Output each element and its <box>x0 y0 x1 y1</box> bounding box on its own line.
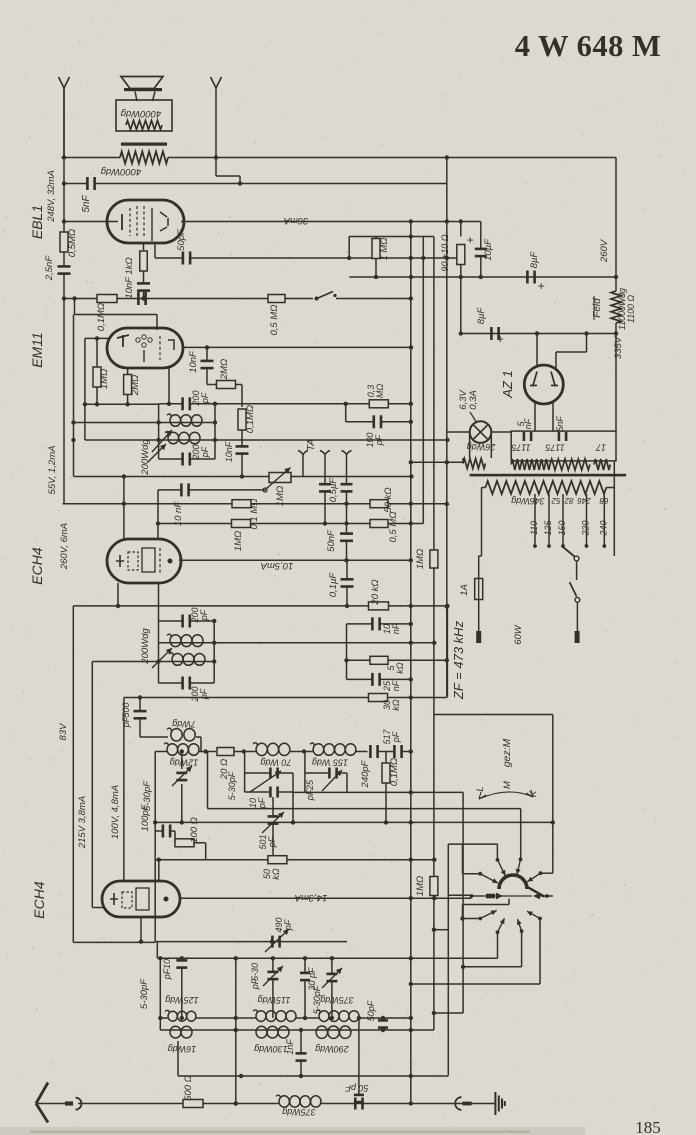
wire padder leg <box>244 752 246 774</box>
junction speaker line <box>214 155 218 159</box>
wire AZ1 filament 1 <box>534 402 536 431</box>
junction <box>62 181 66 185</box>
wire <box>234 751 256 753</box>
wire <box>586 334 588 353</box>
wire IFT3 right leg <box>213 621 215 683</box>
junction <box>409 219 413 223</box>
wire <box>207 384 217 386</box>
svg-text:kΩ: kΩ <box>391 699 401 711</box>
svg-text:+: + <box>466 233 473 247</box>
wire 260V bus <box>63 503 448 505</box>
wire <box>382 421 411 423</box>
wire ground bus right <box>321 1103 495 1105</box>
wire <box>143 292 145 299</box>
wire 83V rail <box>72 606 74 943</box>
wire <box>205 843 207 860</box>
capacitor 10µF electrolytic <box>475 248 487 258</box>
wire left rail lower <box>63 273 65 504</box>
junction <box>344 658 348 662</box>
wire <box>385 752 387 764</box>
mains switch <box>570 582 580 602</box>
resistor 1MΩ det <box>430 877 438 896</box>
wire band line <box>157 957 497 959</box>
svg-text:8µF: 8µF <box>476 307 487 325</box>
junction <box>479 275 483 279</box>
wire main HT rail <box>410 222 412 1104</box>
junction <box>302 749 306 753</box>
wire <box>181 958 183 959</box>
wire osc left leg <box>154 752 156 942</box>
wire <box>245 791 269 793</box>
junction <box>204 749 208 753</box>
capacitor TA 2 <box>341 483 353 493</box>
junction <box>234 1028 238 1032</box>
tuning arrow IFT2 <box>152 430 172 452</box>
resistor 0.5MΩ <box>268 295 285 303</box>
junction <box>330 1016 334 1020</box>
junction <box>409 695 413 699</box>
resistor 50kΩ osc <box>268 856 287 864</box>
capacitor 10nF AVC <box>236 445 249 455</box>
wire osc cathode line <box>91 662 93 908</box>
junction <box>432 641 436 645</box>
wire <box>547 895 553 897</box>
resistor 20kΩ <box>369 602 389 610</box>
wire <box>324 492 326 523</box>
antenna plug and socket <box>65 1098 82 1110</box>
wire tap 150 <box>562 494 564 546</box>
junction <box>122 502 126 506</box>
junction <box>460 916 464 920</box>
pot wiper terminal <box>263 488 267 492</box>
wire <box>613 461 615 488</box>
wire <box>73 941 155 943</box>
wire padder leg B <box>304 752 306 774</box>
antenna coil 375Wdg <box>316 1010 359 1022</box>
wire <box>155 830 162 832</box>
wire contact lead u3 <box>520 809 522 860</box>
wire EBL1 grid lead <box>64 221 110 223</box>
junction <box>614 331 618 335</box>
wire left rail upper <box>63 88 65 266</box>
wire diode line <box>215 439 447 441</box>
jack TA 1 <box>298 451 308 477</box>
wire <box>346 421 373 423</box>
wire <box>171 830 175 832</box>
wire to detector <box>214 642 434 644</box>
wire <box>194 842 206 844</box>
wire <box>181 969 183 1019</box>
wire <box>191 403 215 405</box>
svg-text:10nF: 10nF <box>224 441 234 462</box>
mixer tube ECH4 I <box>107 539 181 583</box>
secondary winding 346Wdg <box>485 481 606 494</box>
svg-text:2MΩ: 2MΩ <box>130 375 141 396</box>
wire to wiper row <box>448 894 471 896</box>
wire top bus right <box>168 157 616 159</box>
switch contact <box>315 292 337 301</box>
junction <box>384 820 388 824</box>
svg-text:1MΩ: 1MΩ <box>233 531 244 551</box>
svg-text:50pF: 50pF <box>366 1000 376 1021</box>
svg-text:0,1MΩ: 0,1MΩ <box>245 405 256 433</box>
wire loop right <box>292 773 294 792</box>
capacitor 200pF IFT2 top <box>181 397 191 410</box>
svg-text:8µF: 8µF <box>529 251 540 269</box>
wire IFT2 left leg <box>158 404 160 459</box>
wire <box>356 751 368 753</box>
wire <box>482 487 486 489</box>
junction <box>445 256 449 260</box>
wire <box>73 315 75 477</box>
svg-text:kΩ: kΩ <box>271 868 281 880</box>
wire IFT2 top <box>159 403 182 405</box>
junction <box>445 658 449 662</box>
svg-text:1MΩ: 1MΩ <box>99 369 110 389</box>
wire <box>191 620 214 622</box>
wire HT line 1 <box>349 276 616 278</box>
junction <box>72 296 76 300</box>
wire cathode <box>143 243 145 250</box>
wire <box>463 966 521 968</box>
capacitor 0.1µF <box>341 578 354 588</box>
svg-text:gez:M: gez:M <box>501 738 513 767</box>
resistor 1MΩ <box>372 239 380 259</box>
wire fuse lead <box>478 556 480 579</box>
trimmer arrow 490 <box>265 929 289 952</box>
wire <box>381 623 411 625</box>
junction <box>344 558 348 562</box>
svg-text:2,5nF: 2,5nF <box>44 255 55 281</box>
junction <box>62 155 66 159</box>
junction <box>357 1016 361 1020</box>
svg-text:pF: pF <box>199 688 209 700</box>
wire <box>196 1017 256 1019</box>
trimmer arrow 501 <box>262 812 284 833</box>
wire 100pF loop <box>345 404 347 422</box>
junction <box>153 820 157 824</box>
coil 375Wdg b <box>276 1095 321 1107</box>
wire osc feedback line <box>208 808 521 810</box>
junction <box>409 641 413 645</box>
primary winding 1175 <box>511 459 550 470</box>
wire switch box top <box>434 714 553 716</box>
tap contact 150 <box>561 544 565 548</box>
svg-text:14,3mA: 14,3mA <box>295 892 328 903</box>
wire stub 16Wdg <box>177 1041 179 1076</box>
wire AF line <box>74 476 412 478</box>
capacitor 50pF <box>182 252 192 265</box>
wire <box>155 859 206 861</box>
wire 5nF line left <box>64 183 87 185</box>
coil 290Wdg <box>316 1026 351 1038</box>
svg-text:K: K <box>528 790 539 797</box>
junction <box>158 1016 162 1020</box>
wire <box>191 458 215 460</box>
wire <box>92 907 104 909</box>
antenna coil 125Wdg <box>165 1010 196 1021</box>
svg-text:248V, 32mA: 248V, 32mA <box>46 170 57 223</box>
svg-text:215V 3,8mA: 215V 3,8mA <box>77 796 88 849</box>
capacitor 517pF <box>393 745 403 758</box>
wire <box>358 1018 360 1094</box>
junction <box>614 275 618 279</box>
svg-text:500: 500 <box>121 702 131 717</box>
resistor 1MΩ grid leak <box>232 520 251 528</box>
wire <box>300 1062 302 1077</box>
wire <box>84 338 86 440</box>
fuse 1A <box>475 579 483 600</box>
junction <box>409 1074 413 1078</box>
resistor 1MΩ af <box>430 550 438 568</box>
wire <box>346 560 348 578</box>
wire <box>382 1029 384 1031</box>
junction <box>409 1016 413 1020</box>
svg-text:17: 17 <box>595 443 606 453</box>
wire <box>447 461 463 463</box>
wire osc line 3 <box>206 859 435 861</box>
junction <box>344 402 348 406</box>
primary winding 1175 b <box>550 459 590 470</box>
speaker terminal left <box>59 77 70 88</box>
junction <box>381 1028 385 1032</box>
tuning arrow IFT2 b <box>148 444 166 462</box>
wire <box>199 751 216 753</box>
speaker cone <box>121 77 163 92</box>
resistor 5kΩ <box>370 656 388 664</box>
wire detector rail <box>433 237 435 879</box>
capacitor 5nF mains 1 <box>523 432 533 441</box>
capacitor 10pF <box>269 787 279 798</box>
junction <box>242 749 246 753</box>
junction <box>432 896 436 900</box>
capacitor 200pF IFT3 bottom <box>181 677 191 690</box>
wire lamp left <box>447 431 470 433</box>
svg-text:1100 Ω: 1100 Ω <box>626 295 636 323</box>
wave switch arm <box>527 887 545 897</box>
junction <box>62 296 66 300</box>
mains plug pin right <box>575 631 580 643</box>
junction <box>234 1101 238 1105</box>
junction <box>291 820 295 824</box>
junction <box>180 1016 184 1020</box>
wave switch arc <box>499 875 527 889</box>
svg-text:MΩ: MΩ <box>375 384 385 398</box>
svg-text:4000Wdg: 4000Wdg <box>120 108 161 119</box>
svg-text:90 +10 Ω: 90 +10 Ω <box>440 234 450 271</box>
svg-text:50nF: 50nF <box>326 529 337 552</box>
wire <box>191 682 214 684</box>
junction <box>138 695 142 699</box>
capacitor 50pF d <box>354 1098 364 1110</box>
wire <box>292 792 294 822</box>
capacitor 2.5nF <box>58 265 71 275</box>
capacitor 8µF electrolytic <box>526 271 536 284</box>
junction <box>71 420 75 424</box>
wire rung1 <box>347 623 372 625</box>
svg-text:pF: pF <box>199 609 209 621</box>
svg-text:nF: nF <box>523 418 533 429</box>
wire tube2 anode line <box>180 897 472 899</box>
resistor 0.1MΩ grid <box>232 500 251 508</box>
wire heater-ground rail <box>446 156 448 697</box>
wire <box>127 368 129 375</box>
wire <box>463 904 510 906</box>
hum-bucking winding 4000Wdg <box>120 152 168 164</box>
wire <box>556 351 587 353</box>
junction <box>180 956 184 960</box>
capacitor 10nF <box>137 282 150 292</box>
capacitor 5nF <box>86 177 96 190</box>
pilot lamp <box>470 421 492 443</box>
resistor 0.1MΩ AVC <box>238 409 246 430</box>
wire EBL1 grid2 <box>154 243 156 258</box>
wire secondary box left <box>481 488 483 557</box>
wire mains lead 2 <box>576 603 578 632</box>
svg-text:AZ 1: AZ 1 <box>500 370 515 398</box>
junction <box>271 858 275 862</box>
wire <box>156 942 158 959</box>
junction <box>239 1074 243 1078</box>
wire <box>74 299 76 315</box>
wire <box>207 752 209 809</box>
svg-text:0,5µF: 0,5µF <box>328 477 339 503</box>
resistor 2MΩ grid <box>217 381 236 389</box>
svg-text:130Wdg: 130Wdg <box>254 1044 288 1054</box>
switch contact d3 <box>517 919 524 933</box>
wire <box>159 958 161 1030</box>
capacitor 200pF IFT2 bottom <box>181 453 191 466</box>
resistor 1kΩ <box>140 251 148 271</box>
wire ground bus <box>203 1103 279 1105</box>
wire <box>346 542 348 561</box>
tap contact 125 <box>547 544 551 548</box>
svg-text:240pF: 240pF <box>360 759 371 788</box>
junction <box>234 1101 238 1105</box>
svg-text:100V, 4,8mA: 100V, 4,8mA <box>110 785 121 839</box>
svg-text:100pF: 100pF <box>140 803 151 831</box>
junction <box>409 956 413 960</box>
wire <box>346 403 370 405</box>
wire <box>206 369 208 385</box>
junction <box>432 928 436 932</box>
wire ECH4 anode line <box>179 559 411 561</box>
wire <box>462 905 464 919</box>
junction <box>409 604 413 608</box>
wire IFT2 coil1 row <box>74 422 216 424</box>
junction <box>409 296 413 300</box>
wire <box>381 678 411 680</box>
trimmer arrow e <box>322 968 342 988</box>
wire IFT3 bottom <box>159 682 182 684</box>
junction <box>156 659 160 663</box>
wire IFT3 left leg <box>158 621 160 683</box>
junction <box>409 256 413 260</box>
capacitor 200pF IFT3 top <box>181 615 191 628</box>
capacitor 10nF bus <box>137 292 147 305</box>
svg-text:1MΩ: 1MΩ <box>415 549 426 569</box>
wire top bus left <box>62 157 121 159</box>
svg-text:50 kΩ: 50 kΩ <box>383 487 394 512</box>
mixer tube ECH4 II <box>102 881 180 917</box>
coil 70Wdg <box>253 743 290 756</box>
wire <box>462 792 464 1013</box>
wire IFT2 to detector <box>215 403 346 405</box>
wire <box>200 737 202 752</box>
svg-text:pF: pF <box>267 836 277 848</box>
junction <box>409 345 413 349</box>
wire 83V line <box>73 605 447 607</box>
trimmer arrow 25pF <box>322 770 342 791</box>
svg-text:70 Wdg: 70 Wdg <box>260 758 291 768</box>
field coil 11000Wdg <box>611 291 621 323</box>
svg-text:TA: TA <box>306 439 317 451</box>
svg-text:0,1MΩ: 0,1MΩ <box>389 758 400 786</box>
wire <box>388 659 447 661</box>
trimmer 5-30pF e <box>326 973 337 983</box>
wire 50pF line <box>155 257 182 259</box>
wire <box>279 791 293 793</box>
wire <box>272 797 274 816</box>
wire coil row 2 <box>160 1029 434 1031</box>
resistor 30kΩ <box>369 694 388 702</box>
svg-text:260V, 6mA: 260V, 6mA <box>59 523 70 570</box>
wire <box>462 458 464 462</box>
junction <box>180 820 184 824</box>
junction <box>62 219 66 223</box>
svg-text:ECH4: ECH4 <box>31 881 47 919</box>
capacitor 50pF b <box>378 1019 388 1029</box>
svg-text:82: 82 <box>564 496 573 505</box>
wire EM11 pin to IFT2 <box>168 368 170 404</box>
wire AZ1 anode 2 <box>555 352 557 368</box>
wire <box>305 772 328 774</box>
wire <box>241 430 243 446</box>
wire grid return <box>158 523 423 525</box>
wire EM11 grid feed <box>75 314 158 316</box>
wire contact lead d2 <box>497 932 499 958</box>
wire <box>272 980 274 1018</box>
tuning arrow IFT3 <box>152 648 172 668</box>
svg-text:50 pF: 50 pF <box>345 1083 369 1093</box>
svg-text:4 W 648 M: 4 W 648 M <box>515 29 662 63</box>
wire IFT3 top <box>159 620 182 622</box>
wire <box>174 831 176 843</box>
wire <box>434 1012 463 1014</box>
speaker voice-coil leads <box>135 92 155 102</box>
wire <box>206 347 208 360</box>
wire <box>411 983 540 985</box>
switch contact u3 <box>516 858 523 875</box>
junction <box>157 858 161 862</box>
resistor 0.3MΩ <box>369 400 388 408</box>
junction <box>180 749 184 753</box>
wire tube2 bottom pin <box>140 917 142 942</box>
wire <box>385 783 387 822</box>
junction <box>409 460 413 464</box>
transformer core bar <box>121 143 167 146</box>
svg-text:155 Wdg: 155 Wdg <box>312 758 348 768</box>
wire <box>331 982 333 1018</box>
svg-text:2MΩ: 2MΩ <box>219 359 230 380</box>
wire <box>359 1017 411 1019</box>
core separator bar <box>470 474 627 477</box>
tap contact 240 <box>602 544 606 548</box>
tap contact 220 <box>585 544 589 548</box>
wire <box>181 752 183 770</box>
svg-text:500 Ω: 500 Ω <box>183 1075 194 1101</box>
junction <box>299 1028 303 1032</box>
